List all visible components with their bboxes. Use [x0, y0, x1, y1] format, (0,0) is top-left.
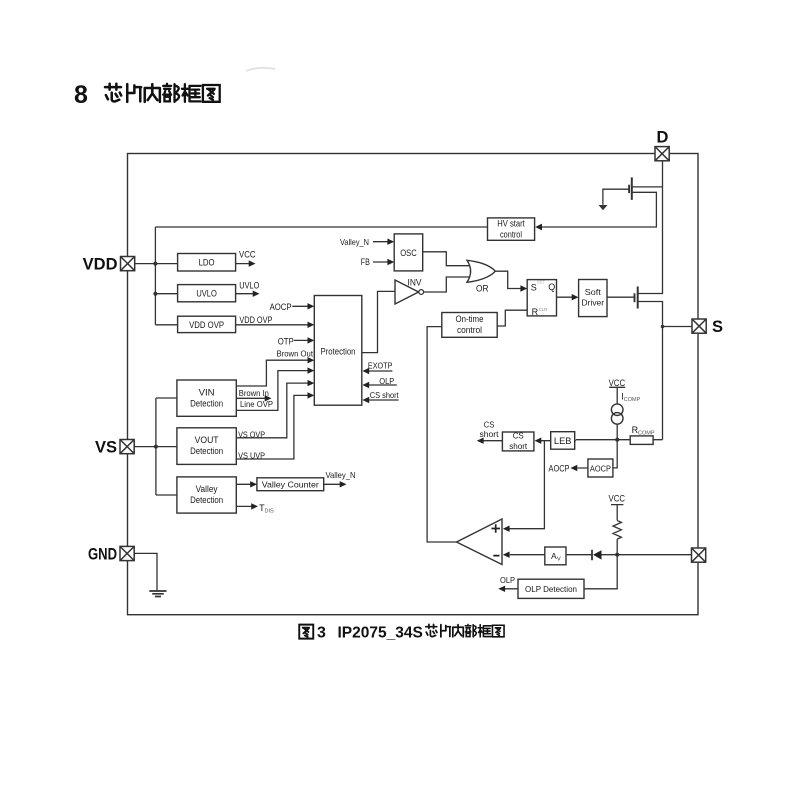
svg-text:VDD OVP: VDD OVP [189, 320, 224, 330]
svg-text:3: 3 [317, 625, 326, 642]
svg-text:EXOTP: EXOTP [368, 360, 393, 370]
svg-text:Driver: Driver [582, 298, 605, 308]
svg-text:R: R [532, 307, 539, 317]
svg-text:COMP: COMP [624, 397, 641, 403]
svg-text:UVLO: UVLO [196, 289, 217, 299]
svg-text:Line OVP: Line OVP [240, 399, 273, 409]
svg-text:Soft: Soft [585, 287, 602, 297]
svg-text:SET: SET [537, 280, 546, 285]
svg-text:UVLO: UVLO [239, 281, 259, 291]
svg-text:Brown Out: Brown Out [277, 349, 314, 359]
svg-text:CS: CS [513, 431, 524, 441]
svg-text:OLP: OLP [379, 376, 394, 386]
svg-text:AOCP: AOCP [590, 463, 611, 473]
svg-text:control: control [500, 229, 522, 239]
svg-text:OTP: OTP [278, 336, 294, 346]
svg-text:VIN: VIN [199, 387, 215, 397]
svg-text:AOCP: AOCP [549, 464, 570, 474]
svg-text:INV: INV [408, 277, 422, 287]
svg-text:Valley_N: Valley_N [340, 237, 369, 247]
svg-text:Valley: Valley [196, 484, 218, 494]
svg-text:COMP: COMP [638, 431, 655, 437]
svg-text:Protection: Protection [321, 346, 356, 356]
svg-text:AOCP: AOCP [270, 302, 292, 312]
svg-text:control: control [457, 325, 482, 335]
svg-text:OLP: OLP [500, 575, 515, 585]
svg-text:8: 8 [74, 81, 88, 109]
svg-text:VS: VS [95, 438, 117, 456]
svg-text:Q: Q [548, 282, 555, 292]
svg-text:VCC: VCC [609, 493, 626, 503]
svg-text:CLR: CLR [539, 307, 548, 312]
svg-text:FB: FB [361, 257, 370, 267]
svg-text:VCC: VCC [609, 378, 626, 388]
svg-text:HV start: HV start [497, 218, 525, 228]
svg-text:IP2075_34S: IP2075_34S [338, 625, 423, 642]
svg-text:D: D [657, 129, 669, 147]
svg-text:OSC: OSC [400, 248, 417, 258]
svg-text:VDD: VDD [83, 255, 118, 273]
svg-text:S: S [712, 318, 723, 336]
svg-text:Valley Counter: Valley Counter [262, 480, 319, 490]
svg-text:LEB: LEB [554, 436, 572, 446]
svg-text:GND: GND [88, 545, 117, 563]
svg-text:Valley_N: Valley_N [326, 470, 356, 480]
svg-text:V: V [557, 557, 561, 563]
svg-text:CS: CS [484, 419, 495, 429]
svg-text:VDD OVP: VDD OVP [239, 315, 272, 325]
svg-text:VOUT: VOUT [195, 435, 219, 445]
svg-text:VS UVP: VS UVP [238, 450, 265, 460]
svg-text:On-time: On-time [456, 314, 484, 324]
svg-text:VS OVP: VS OVP [238, 429, 265, 439]
svg-text:short: short [480, 429, 500, 439]
svg-text:Detection: Detection [190, 446, 223, 456]
svg-text:LDO: LDO [199, 258, 215, 268]
svg-text:OR: OR [476, 283, 489, 293]
svg-text:Detection: Detection [190, 495, 223, 505]
svg-text:VCC: VCC [239, 250, 256, 260]
svg-text:short: short [509, 441, 528, 451]
svg-text:CS short: CS short [370, 390, 400, 400]
svg-text:Detection: Detection [190, 398, 223, 408]
svg-text:DIS: DIS [265, 509, 275, 515]
svg-text:OLP Detection: OLP Detection [525, 584, 577, 594]
svg-text:Brown In: Brown In [239, 388, 269, 398]
